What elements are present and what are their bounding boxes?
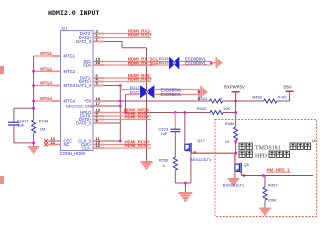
svg-text:16: 16: [96, 60, 101, 65]
svg-text:R542: R542: [197, 106, 207, 111]
svg-text:SDA: SDA: [83, 63, 92, 68]
svg-text:10K: 10K: [223, 106, 230, 111]
join wire: [198, 90, 200, 95]
wire CLK_S: [104, 140, 120, 142]
stem to ground: [184, 183, 186, 192]
no-connect X pin 13: [44, 139, 48, 143]
vertical bus V1: [119, 86, 121, 142]
pin 8 DAT0_S: [93, 122, 104, 124]
svg-text:MTG4: MTG4: [64, 99, 76, 104]
vertical bus V2: [125, 94, 127, 112]
svg-text:R457: R457: [268, 182, 278, 187]
svg-text:12: 12: [96, 143, 101, 148]
ground below R744: [28, 146, 39, 154]
pin 17 DDC/CEC GND: [93, 105, 104, 107]
pin 18 +5V: [93, 100, 104, 102]
svg-text:R556: R556: [159, 157, 169, 162]
underline HM_HPD_1: [267, 171, 292, 173]
svg-text:HM_HPD_1: HM_HPD_1: [267, 167, 291, 172]
svg-text:0-NC: 0-NC: [278, 94, 287, 99]
resistor R556: [173, 157, 177, 170]
wire MTG1: [34, 55, 61, 57]
svg-text:DAT0_S: DAT0_S: [76, 121, 92, 126]
ground arrow right of ED15: [216, 57, 223, 68]
wire DAT1- net: [104, 77, 151, 79]
svg-text:J21: J21: [61, 26, 68, 31]
svg-text:HDMI_RX0+: HDMI_RX0+: [125, 115, 150, 120]
junction V1 GND row: [119, 105, 122, 108]
svg-text:HPD: HPD: [255, 154, 268, 160]
resistor R456: [234, 127, 238, 140]
svg-text:1K: 1K: [225, 139, 230, 144]
sheet border tick left upper: [0, 66, 4, 74]
wire HPD to R542: [146, 112, 210, 114]
wire DAT1+ net: [104, 81, 151, 83]
svg-text:D5V: D5V: [284, 85, 292, 90]
svg-text:MTG1: MTG1: [64, 54, 76, 59]
wire R459 to D5V: [277, 100, 290, 102]
svg-text:CLK-: CLK-: [82, 146, 92, 151]
junction CLK_S on V1: [119, 140, 122, 143]
pin 6 DAT1-: [93, 77, 104, 79]
wire to ED22: [126, 93, 141, 95]
shield bus vertical to ground: [146, 48, 148, 161]
wire R456 to node: [235, 141, 237, 154]
svg-text:100K: 100K: [267, 197, 277, 202]
wire DAT0+ net: [104, 119, 151, 121]
svg-text:ED13: ED13: [159, 60, 169, 65]
pin 11 CLK_S: [93, 140, 104, 142]
pin mark Q5 drain: [243, 174, 245, 176]
capacitor C623: [170, 128, 180, 130]
svg-text:MTG2: MTG2: [40, 66, 52, 71]
junction MTG2: [32, 70, 35, 73]
svg-text:ESD9B8VL: ESD9B8VL: [161, 92, 183, 97]
wire to ground: [33, 143, 35, 146]
resistor R457: [263, 187, 267, 200]
transistor Q17 BSS123LT1: [185, 144, 190, 150]
wire R523 to rail: [223, 100, 236, 102]
junction R456 bottom: [234, 140, 237, 143]
junction V2 on HPD: [124, 111, 127, 114]
rail segment: [235, 101, 237, 113]
ESD diode pair ED17/ED22: [141, 86, 155, 98]
wire DAT2- net: [104, 33, 151, 35]
wire arrow to +5V row: [198, 92, 200, 101]
wire Q5 drain to HM_HPD_1: [241, 173, 243, 175]
svg-text:1K: 1K: [312, 139, 317, 143]
wire jog right: [122, 47, 147, 49]
wire bottom of C1077/R744: [14, 142, 34, 144]
wire Q17 drain to node: [192, 152, 236, 154]
junction at R744 bottom: [32, 142, 35, 145]
junction SCL/SDA shield: [210, 61, 213, 64]
pin 14 NC stub: [48, 144, 61, 146]
svg-text:1uF: 1uF: [17, 123, 24, 128]
pin 13 CEC stub: [48, 140, 61, 142]
svg-text:DAT1_S: DAT1_S: [76, 83, 92, 88]
svg-text:R456: R456: [225, 121, 235, 126]
wire HPD to Q17 gate: [184, 113, 186, 145]
resistor R459: [264, 99, 277, 103]
connector J21 CONN_HDMI body: [61, 31, 94, 151]
resistor R542: [210, 111, 223, 115]
svg-text:CONN_HDMI: CONN_HDMI: [60, 151, 85, 156]
pin 10 CLK+: [93, 144, 104, 146]
pin 5 DAT1_S: [93, 85, 104, 87]
ground shield bus: [140, 161, 152, 169]
wire R542 to rail: [223, 112, 235, 114]
svg-text:R744: R744: [39, 118, 49, 123]
wire SCL: [104, 61, 170, 63]
wire +5V to R523: [104, 100, 210, 102]
wire rail to R459: [236, 100, 264, 102]
annotation text line 1: [239, 143, 245, 149]
pin 3 DAT2-: [93, 33, 104, 35]
wire CLK- net: [104, 147, 151, 149]
pin 16 SDA: [93, 64, 104, 66]
junction ED pair out: [198, 90, 201, 93]
svg-text:1M: 1M: [40, 127, 46, 132]
wire DAT0- net: [104, 115, 151, 117]
wire Q17 source down: [190, 152, 192, 183]
svg-text:ESD9B8VL: ESD9B8VL: [185, 61, 207, 66]
svg-text:MTG4: MTG4: [40, 96, 52, 101]
wire to R457: [264, 176, 266, 188]
junction rail / R542: [234, 111, 237, 114]
junction MTG4: [32, 100, 35, 103]
svg-text:BSS123LT1: BSS123LT1: [223, 182, 245, 187]
wire MTG3: [34, 85, 61, 87]
svg-text:R523: R523: [198, 96, 208, 101]
wire DAT2_S: [104, 41, 122, 43]
svg-text:MTG1: MTG1: [40, 51, 52, 56]
wire join SCL/SDA: [211, 62, 213, 66]
pin 19 HPLG: [93, 112, 104, 114]
resistor R523: [210, 99, 223, 103]
junction C623 top: [174, 111, 177, 114]
MTG bus vertical wire: [33, 56, 35, 108]
svg-text:HDMI_RX1+: HDMI_RX1+: [128, 77, 153, 82]
annotation dashed box: [215, 120, 317, 217]
svg-text:MTG3: MTG3: [40, 81, 52, 86]
ground arrow right of ED17: [200, 86, 208, 98]
svg-text:R459: R459: [252, 94, 262, 99]
pin 1 DAT2+: [93, 37, 104, 39]
wire SCL to junction: [179, 61, 212, 63]
wire CLK+ net: [104, 144, 151, 146]
capacitor C1077: [13, 108, 15, 121]
svg-text:HDMI2.0 INPUT: HDMI2.0 INPUT: [48, 10, 99, 17]
svg-text:HDMI_RX_SDA: HDMI_RX_SDA: [128, 60, 159, 65]
pin 4 DAT1+: [93, 81, 104, 83]
pin 7 DAT0+: [93, 119, 104, 121]
svg-text:17: 17: [96, 101, 101, 106]
junction at gnd rail: [184, 182, 187, 185]
wire MTG4: [34, 100, 61, 102]
wire to ED17: [120, 89, 140, 91]
junction DAT1_S: [119, 84, 122, 87]
svg-text:BSS123LT1: BSS123LT1: [190, 157, 212, 162]
svg-text:1uF: 1uF: [161, 131, 168, 136]
wire DAT0_S: [104, 122, 120, 124]
svg-text:MTG2: MTG2: [64, 69, 76, 74]
svg-text:HDMI_RX2+: HDMI_RX2+: [128, 33, 153, 38]
wire source/R556 bottom: [175, 182, 191, 184]
wire jog down: [121, 42, 123, 48]
wire RXPWR5V down: [235, 93, 237, 102]
svg-text:DAT2_S: DAT2_S: [76, 39, 92, 44]
resistor R744: [33, 108, 35, 120]
junction rail / R523: [234, 100, 237, 103]
pin mark Q17 drain: [194, 151, 196, 153]
pin 9 DAT0-: [93, 115, 104, 117]
wire SDA: [104, 64, 170, 66]
ESD diode pair ED15/ED13: [170, 58, 180, 69]
junction at R744 top: [32, 107, 35, 110]
svg-text:MTG3: MTG3: [64, 83, 76, 88]
wire ED22 out: [154, 93, 199, 95]
svg-text:Q5: Q5: [244, 162, 250, 167]
wire Q5 source to ground: [234, 171, 236, 178]
wire up to D5V: [289, 92, 291, 101]
pin 2 DAT2_S: [93, 41, 104, 43]
junction Q17 gate line: [183, 111, 186, 114]
wire HPD to C623: [174, 113, 176, 129]
ground below Q17: [179, 192, 193, 202]
wire SDA to junction: [179, 64, 212, 66]
junction MTG3: [32, 84, 35, 87]
wire node to Q5 gate: [234, 153, 236, 164]
wire to ground arrow: [212, 62, 216, 64]
wire DAT2+ net: [104, 37, 151, 39]
sheet border tick left lower: [0, 176, 4, 184]
svg-text:NC: NC: [64, 142, 70, 147]
wire HPD: [104, 112, 146, 114]
wire top of C1077/R744: [14, 107, 34, 109]
wire R556 to gnd rail: [174, 171, 176, 184]
no-connect X pin 14: [44, 143, 48, 147]
svg-text:ED22: ED22: [130, 89, 140, 94]
wire DDC/CEC GND: [104, 105, 120, 107]
wire ED17 out: [154, 89, 199, 91]
rail into box: [235, 113, 237, 128]
ground below Q5: [228, 178, 240, 186]
wire MTG2: [34, 70, 61, 72]
svg-text:RXPWR5V: RXPWR5V: [224, 85, 245, 90]
pin 12 CLK-: [93, 147, 104, 149]
junction V1 +5V row: [119, 100, 122, 103]
svg-text:DDC/CEC GND: DDC/CEC GND: [66, 104, 94, 109]
wire R457 to ground: [264, 201, 266, 208]
transistor Q5 BSS123LT1: [235, 164, 240, 171]
annotation text line 2: [239, 151, 245, 157]
pin 15 SCL: [93, 61, 104, 63]
svg-text:HDMI_RCK-: HDMI_RCK-: [125, 143, 150, 148]
ground below R457: [259, 208, 271, 216]
wire DAT1_S: [104, 85, 120, 87]
junction Q17 drain / R456 / Q5 gate: [234, 152, 237, 155]
wire C623 to R556: [174, 132, 176, 157]
junction R457 top: [262, 174, 265, 177]
svg-text:Q17: Q17: [197, 138, 205, 143]
